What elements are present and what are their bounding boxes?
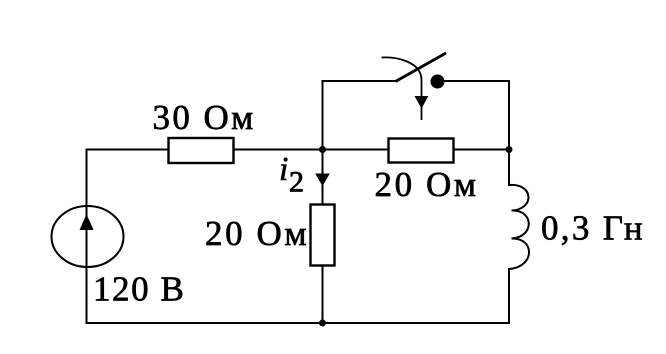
svg-text:20 Ом: 20 Ом <box>205 214 309 253</box>
current i2 arrow <box>315 174 330 187</box>
wire: bottom horizontal <box>86 322 511 324</box>
svg-text:120 В: 120 В <box>93 270 185 309</box>
voltage source E1 circle <box>52 206 124 267</box>
wire: middle vertical branch <box>322 81 324 323</box>
resistor R3 20 Ом horizontal box <box>389 139 454 163</box>
switch S1 contact dot <box>431 75 445 89</box>
svg-text:30 Ом: 30 Ом <box>153 98 256 137</box>
inductor L1 <box>509 185 529 269</box>
resistor R1 30 Ом box <box>169 138 234 163</box>
switch S1 closing-direction arrowhead <box>415 96 429 109</box>
svg-text:2: 2 <box>289 166 304 199</box>
resistor R2 20 Ом vertical box <box>311 205 335 266</box>
wire: middle horizontal (node A to node B) <box>323 149 510 151</box>
svg-text:20 Ом: 20 Ом <box>375 165 479 204</box>
switch S1 closing-direction line <box>421 80 423 97</box>
wire: top-left horizontal (source to node A) <box>86 149 323 151</box>
node C junction dot (bottom) <box>319 320 326 327</box>
svg-text:0,3 Гн: 0,3 Гн <box>541 209 645 248</box>
wire: right vertical below inductor <box>508 268 510 323</box>
wire: top switch branch left segment <box>322 80 396 82</box>
node B junction dot <box>506 146 513 153</box>
switch S1 motion arc <box>382 57 422 80</box>
wire: left vertical branch <box>86 150 88 324</box>
wire: top switch branch right segment <box>443 80 510 82</box>
switch S1 blade <box>396 53 447 82</box>
wire: right vertical above inductor <box>508 80 510 186</box>
svg-text:i: i <box>279 151 288 188</box>
voltage source arrow (up) <box>80 214 94 230</box>
node A junction dot <box>319 146 326 153</box>
